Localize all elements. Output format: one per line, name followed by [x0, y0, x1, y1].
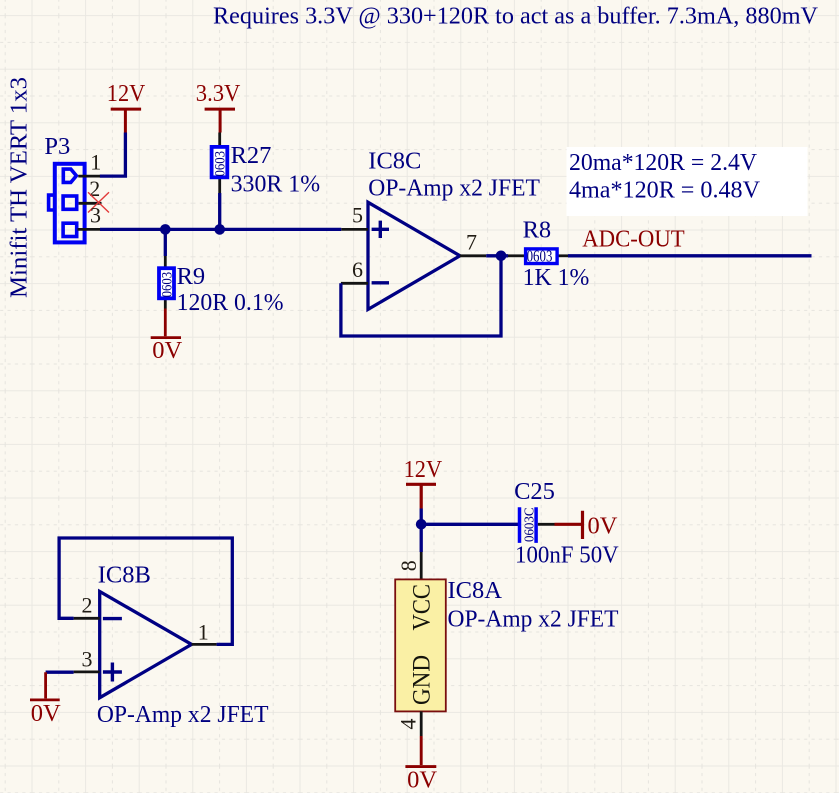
svg-text:3: 3	[82, 646, 93, 671]
op-amp power part IC8A	[395, 577, 618, 712]
wire 12V to P3 pin1	[100, 133, 126, 177]
connector P3	[44, 133, 84, 243]
IC8B pin 3	[74, 646, 100, 672]
svg-text:OP-Amp x2 JFET: OP-Amp x2 JFET	[448, 605, 619, 632]
IC8A pin 4	[396, 711, 422, 736]
power port 3.3V	[196, 80, 241, 133]
svg-text:OP-Amp x2 JFET: OP-Amp x2 JFET	[368, 175, 540, 202]
svg-text:1: 1	[90, 150, 101, 175]
svg-text:GND: GND	[407, 655, 436, 705]
svg-text:0V: 0V	[588, 513, 618, 540]
svg-text:12V: 12V	[107, 80, 146, 107]
svg-text:OP-Amp x2 JFET: OP-Amp x2 JFET	[97, 701, 269, 728]
svg-text:Requires 3.3V @ 330+120R to ac: Requires 3.3V @ 330+120R to act as a buf…	[213, 2, 818, 29]
svg-text:VCC: VCC	[407, 584, 436, 631]
svg-text:R8: R8	[523, 216, 552, 243]
junction at output	[496, 251, 507, 262]
P3 pin 2	[79, 176, 102, 203]
svg-text:ADC-OUT: ADC-OUT	[582, 226, 685, 253]
power port 0V under R9	[151, 309, 183, 365]
svg-text:3.3V: 3.3V	[196, 80, 241, 107]
resistor R8	[508, 216, 589, 291]
svg-text:R9: R9	[177, 263, 206, 290]
wire R27 to main wire	[218, 193, 221, 229]
wire 12V to IC8A pin 8 and C25	[421, 509, 518, 553]
no-connect X on pin 2	[88, 192, 109, 212]
svg-text:IC8A: IC8A	[448, 577, 503, 604]
note text 4ma	[569, 177, 760, 204]
IC8B pin 2	[74, 593, 100, 619]
svg-text:Minifit TH VERT 1x3: Minifit TH VERT 1x3	[5, 77, 32, 298]
svg-text:C25: C25	[514, 478, 555, 505]
svg-text:0603C: 0603C	[523, 508, 538, 543]
main wire P3 pin3 to op-amp	[100, 228, 341, 231]
IC8B pin 1	[192, 619, 217, 644]
op-amp IC8B	[97, 561, 269, 728]
svg-text:5: 5	[352, 202, 363, 227]
white note box	[567, 147, 808, 216]
svg-text:IC8B: IC8B	[98, 561, 151, 588]
capacitor C25	[514, 478, 619, 569]
power port 0V at IC8B	[30, 672, 61, 727]
feedback wire IC8C	[341, 256, 501, 336]
IC8A pin 8	[396, 552, 421, 579]
svg-text:120R 0.1%: 120R 0.1%	[177, 289, 284, 316]
note text 20ma	[569, 149, 757, 176]
svg-text:0603: 0603	[213, 151, 229, 177]
power port 0V under IC8A	[405, 736, 437, 793]
svg-text:0V: 0V	[31, 700, 61, 727]
op-amp IC8C	[368, 147, 540, 309]
wire pin7 to R8	[486, 254, 508, 257]
IC8C pin 5	[341, 202, 368, 229]
junction at 12V/C25	[416, 519, 427, 530]
wire IC8B pin3 to 0V	[46, 671, 74, 674]
svg-text:4: 4	[396, 719, 421, 730]
svg-text:330R 1%: 330R 1%	[231, 170, 321, 197]
svg-text:12V: 12V	[404, 456, 443, 483]
svg-text:P3: P3	[44, 133, 70, 160]
power port 0V right of C25	[555, 511, 618, 540]
IC8C pin 7	[460, 230, 486, 256]
feedback wire IC8B	[59, 538, 232, 644]
P3 pin 3	[78, 202, 102, 229]
junction at R9	[160, 224, 171, 235]
svg-text:2: 2	[89, 176, 100, 201]
svg-text:3: 3	[90, 202, 101, 227]
svg-text:6: 6	[352, 257, 363, 282]
svg-text:100nF 50V: 100nF 50V	[515, 542, 619, 569]
P3 pin 1	[78, 150, 101, 177]
svg-text:0603: 0603	[160, 272, 176, 298]
power port 12V (top)	[107, 80, 146, 133]
junction at R27	[214, 224, 225, 235]
svg-text:1: 1	[198, 619, 209, 644]
svg-text:0603: 0603	[527, 247, 553, 266]
wire main to R9	[164, 229, 167, 256]
svg-text:R27: R27	[231, 142, 272, 169]
note text top	[213, 2, 818, 29]
resistor R9	[159, 256, 284, 316]
svg-text:7: 7	[466, 230, 477, 255]
wire R8 to right	[568, 254, 812, 257]
power port 12V (IC8A)	[404, 456, 443, 509]
resistor R27	[212, 133, 321, 198]
svg-text:0V: 0V	[407, 767, 437, 793]
IC8C pin 6	[341, 257, 368, 283]
svg-text:IC8C: IC8C	[368, 147, 421, 174]
svg-text:20ma*120R = 2.4V: 20ma*120R = 2.4V	[569, 149, 757, 176]
note text Minifit TH VERT 1x3 (vertical)	[5, 77, 32, 298]
svg-text:8: 8	[396, 560, 421, 571]
svg-text:2: 2	[82, 593, 93, 618]
svg-text:1K 1%: 1K 1%	[523, 264, 590, 291]
net label ADC-OUT	[582, 226, 685, 253]
svg-text:0V: 0V	[152, 337, 182, 364]
svg-text:4ma*120R = 0.48V: 4ma*120R = 0.48V	[569, 177, 760, 204]
